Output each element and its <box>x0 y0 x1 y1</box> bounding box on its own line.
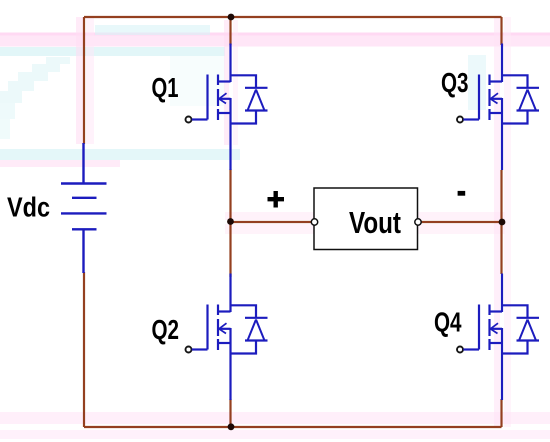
wire: plus node to Vout left terminal <box>231 221 312 223</box>
svg-text:Vdc: Vdc <box>7 192 50 223</box>
node: bottom junction <box>228 423 235 430</box>
pin circle Vout right terminal <box>415 219 421 225</box>
wire: center leg top stub below top junction <box>229 17 231 45</box>
wire: center leg bottom stub above bottom junction <box>229 399 231 427</box>
wire: bottom bus <box>84 426 502 428</box>
svg-text:Q2: Q2 <box>152 314 180 345</box>
node: plus output junction <box>227 218 234 225</box>
svg-text:Vout: Vout <box>349 205 401 240</box>
wire: top bus from left rail to right rail <box>84 16 502 18</box>
transistor Q1 (high side left, with body diode) <box>186 44 268 171</box>
load box Vout <box>314 188 418 250</box>
label + (output polarity plus) <box>268 191 285 208</box>
transistor Q4 (low side right, with body diode) <box>457 274 539 401</box>
wire: left rail lower segment (battery - down to bottom corner) <box>83 272 85 427</box>
wire: Vout right terminal to minus node <box>422 221 502 223</box>
svg-text:Q3: Q3 <box>441 67 469 98</box>
svg-text:Q1: Q1 <box>152 72 179 103</box>
battery Vdc (blue plates and pin stubs) <box>61 143 107 273</box>
node: minus output junction <box>499 219 506 226</box>
svg-text:Q4: Q4 <box>434 307 462 338</box>
wire: left rail upper segment (top corner down to battery +) <box>83 17 85 144</box>
wire: center leg mid segment through plus node <box>229 169 231 277</box>
wire: right rail mid segment through minus node <box>500 170 502 274</box>
wire: right rail top stub <box>500 17 502 45</box>
label - (output polarity minus) <box>458 191 466 196</box>
node: top junction <box>228 14 235 21</box>
pin circle Vout left terminal <box>311 219 317 225</box>
wire: right rail bottom stub <box>500 399 502 427</box>
transistor Q3 (high side right, with body diode) <box>457 44 539 171</box>
transistor Q2 (low side left, with body diode) <box>186 274 268 401</box>
